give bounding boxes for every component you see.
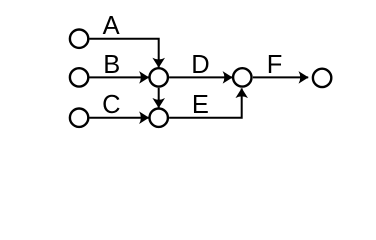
label E [192, 91, 209, 119]
node 5 (bottom merge) [150, 109, 168, 127]
node 6 (after D and E) [233, 68, 251, 86]
svg-text:A: A [103, 12, 120, 40]
node 7 (final) [313, 69, 331, 87]
svg-text:E: E [192, 91, 209, 119]
label A [103, 12, 120, 40]
label F [267, 51, 283, 79]
svg-text:F: F [267, 51, 283, 79]
svg-text:D: D [191, 51, 209, 79]
wire D (node 4 to node 6) [169, 76, 232, 78]
wire C (node 3 into node 5) [90, 117, 149, 119]
svg-text:C: C [102, 91, 120, 119]
wire dummy (node 4 down to node 5) [158, 88, 160, 108]
wire E (node 5 elbow up into node 6) [169, 88, 242, 117]
node 4 (middle merge) [150, 68, 168, 86]
label B [103, 51, 120, 79]
svg-text:B: B [103, 51, 120, 79]
wire F (node 6 to node 7) [253, 76, 308, 78]
label C [102, 91, 120, 119]
wire A (elbow from node 1 down into node 4) [90, 39, 159, 68]
node 3 (bottom-left start) [70, 109, 88, 127]
label D [191, 51, 209, 79]
node 2 (middle-left start) [70, 68, 88, 86]
wire B (node 2 into node 4) [90, 76, 149, 78]
node 1 (top-left start) [70, 30, 88, 48]
